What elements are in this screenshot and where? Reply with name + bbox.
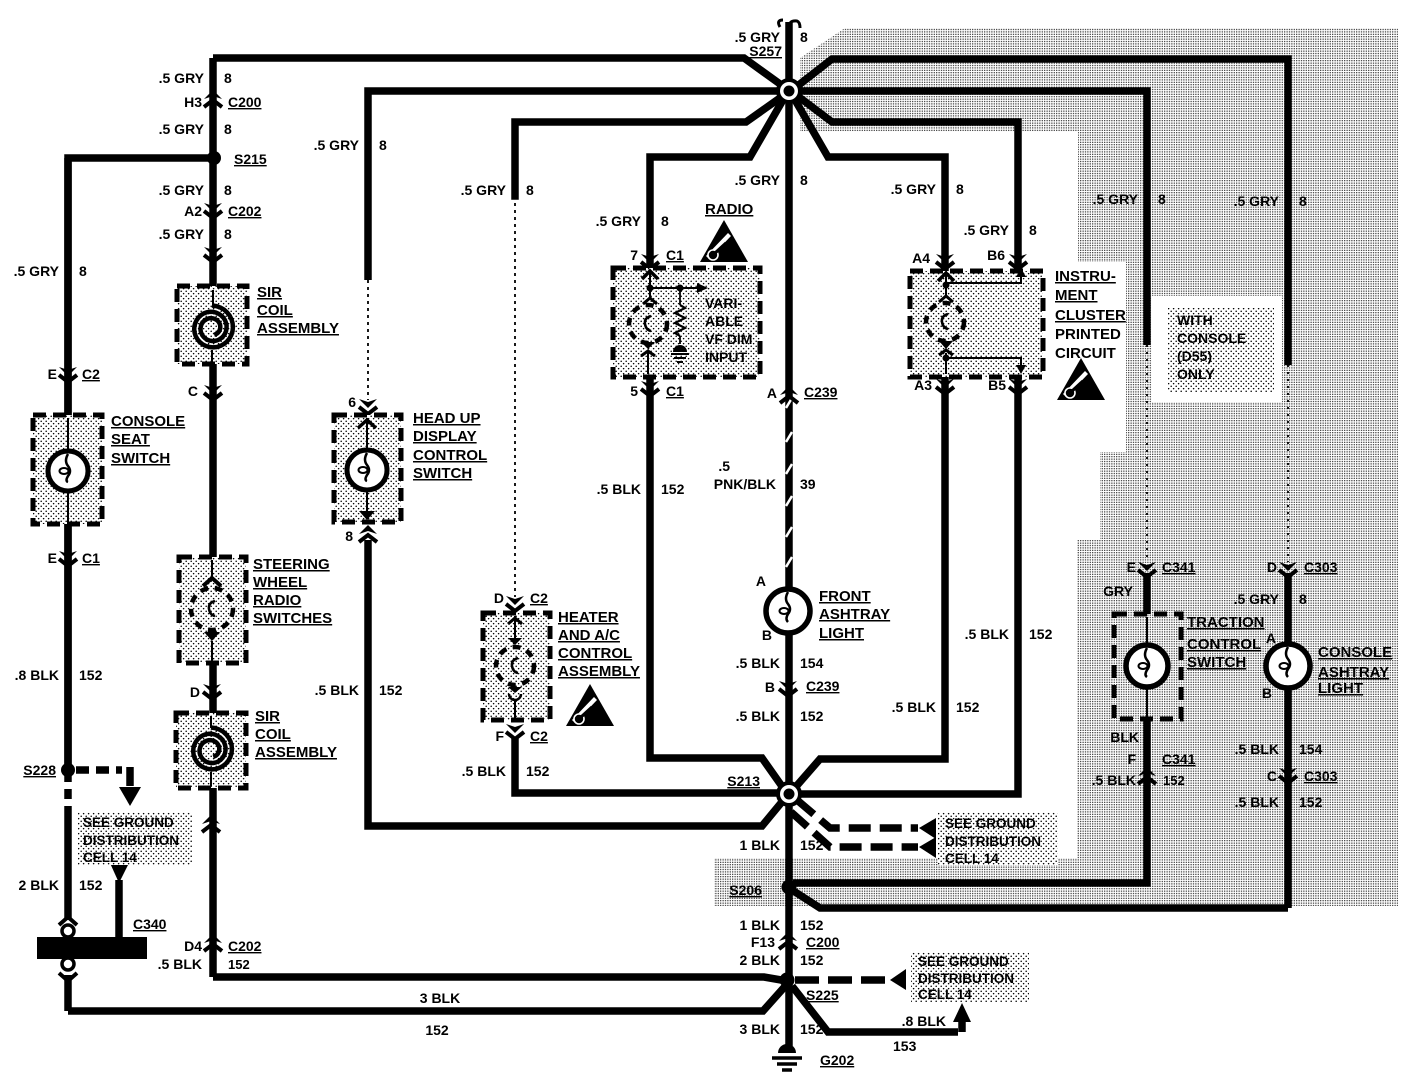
svg-text:CONTROL: CONTROL [558, 645, 632, 662]
svg-text:C239: C239 [806, 678, 840, 694]
svg-text:.5: .5 [718, 458, 730, 474]
svg-text:C2: C2 [530, 590, 548, 606]
wire S257 to C200/H3 branch (left top) [213, 58, 787, 89]
connector A4 instrument cluster [936, 254, 954, 269]
ground G202 [778, 1044, 796, 1053]
traction control switch [1114, 614, 1181, 719]
svg-text:DISTRIBUTION: DISTRIBUTION [945, 834, 1041, 849]
connector C239 pin A [780, 386, 798, 403]
connector C202 pin A2 [204, 203, 222, 218]
svg-text:E: E [48, 366, 57, 382]
wire S257 to head up display switch [368, 91, 786, 280]
svg-text:152: 152 [661, 481, 685, 497]
svg-text:E: E [1127, 559, 1136, 575]
wire S257 stub to top of page [785, 22, 793, 91]
svg-text:.5 GRY: .5 GRY [159, 182, 205, 198]
svg-text:A: A [767, 385, 777, 401]
svg-text:.5 GRY: .5 GRY [1093, 191, 1139, 207]
svg-text:SIR: SIR [257, 284, 282, 301]
svg-text:SWITCHES: SWITCHES [253, 610, 332, 627]
connector B5 instrument cluster [1009, 379, 1027, 394]
svg-text:.5 GRY: .5 GRY [159, 70, 205, 86]
svg-text:C303: C303 [1304, 559, 1338, 575]
svg-text:D4: D4 [184, 938, 202, 954]
connector C341 pin E [1138, 562, 1156, 577]
svg-text:3 BLK: 3 BLK [740, 1021, 780, 1037]
connector C303 pin C [1279, 768, 1297, 783]
svg-text:8: 8 [1299, 193, 1307, 209]
C340 ground bus bar [37, 937, 147, 959]
wire radio pin5 down to S213 [650, 377, 786, 792]
dashed wire S213 to ground distribution (lower) [791, 812, 918, 847]
svg-text:.5 BLK: .5 BLK [1235, 741, 1279, 757]
svg-text:.5 BLK: .5 BLK [597, 481, 641, 497]
svg-text:152: 152 [379, 682, 403, 698]
svg-text:B: B [765, 679, 775, 695]
note box see ground distribution (S213) [938, 812, 1058, 865]
svg-text:B6: B6 [987, 247, 1005, 263]
svg-text:8: 8 [800, 172, 808, 188]
wire S257 to radio pin 7 [650, 93, 787, 268]
svg-text:F: F [495, 728, 504, 744]
svg-text:8: 8 [800, 29, 808, 45]
svg-text:A: A [756, 573, 766, 589]
svg-text:CONTROL: CONTROL [413, 447, 487, 464]
wire cluster A3 down to S213 [793, 377, 945, 790]
radio (VF dim input) [613, 268, 760, 377]
wire S228 to C340 [64, 772, 72, 806]
svg-text:STEERING: STEERING [253, 556, 330, 573]
connector C1 pin 7 radio [641, 254, 659, 269]
svg-text:C303: C303 [1304, 768, 1338, 784]
svg-text:8: 8 [224, 226, 232, 242]
svg-text:S213: S213 [727, 773, 760, 789]
svg-text:ASSEMBLY: ASSEMBLY [558, 663, 640, 680]
svg-text:.5 GRY: .5 GRY [891, 181, 937, 197]
svg-text:ASSEMBLY: ASSEMBLY [257, 320, 339, 337]
svg-text:.8 BLK: .8 BLK [15, 667, 59, 683]
svg-text:SIR: SIR [255, 708, 280, 725]
svg-text:CONTROL: CONTROL [1187, 636, 1261, 653]
svg-text:152: 152 [800, 1021, 824, 1037]
svg-text:TRACTION: TRACTION [1187, 614, 1265, 631]
svg-text:.5 GRY: .5 GRY [159, 226, 205, 242]
shaded band at splice S206 [714, 858, 1077, 906]
svg-text:2 BLK: 2 BLK [19, 877, 59, 893]
svg-text:7: 7 [630, 247, 638, 263]
splice S225 [780, 973, 795, 988]
svg-text:LIGHT: LIGHT [819, 625, 864, 642]
svg-text:SWITCH: SWITCH [1187, 654, 1246, 671]
connector C341 pin F [1138, 767, 1156, 784]
svg-text:C2: C2 [530, 728, 548, 744]
svg-text:D: D [494, 590, 504, 606]
svg-text:H3: H3 [184, 94, 202, 110]
dashed wire S228 to ground distribution [76, 766, 122, 774]
console ashtray light [1266, 644, 1310, 688]
svg-text:152: 152 [79, 877, 103, 893]
svg-text:C200: C200 [228, 94, 262, 110]
ESD symbol heater [566, 684, 614, 726]
connector A3 instrument cluster [936, 379, 954, 394]
wire D4 C202 to S225 (3 BLK 152) [213, 977, 787, 981]
svg-text:.5 BLK: .5 BLK [158, 956, 202, 972]
svg-text:WITH: WITH [1177, 312, 1213, 328]
svg-text:COIL: COIL [257, 302, 293, 319]
svg-text:8: 8 [1029, 222, 1037, 238]
note box see ground distribution (S225) [911, 952, 1029, 1002]
wire below C340 to bottom run [64, 975, 72, 1011]
svg-text:F: F [1127, 751, 1136, 767]
svg-text:SWITCH: SWITCH [413, 465, 472, 482]
svg-text:.5 BLK: .5 BLK [462, 763, 506, 779]
wire console seat switch segments [64, 158, 72, 416]
svg-text:INSTRU-: INSTRU- [1055, 268, 1116, 285]
svg-text:154: 154 [800, 655, 824, 671]
connector circles above C340 [59, 917, 77, 925]
connector B6 instrument cluster [1009, 254, 1027, 269]
svg-text:HEAD UP: HEAD UP [413, 410, 481, 427]
svg-text:DISTRIBUTION: DISTRIBUTION [83, 833, 179, 848]
svg-text:.5 BLK: .5 BLK [1235, 794, 1279, 810]
svg-text:.5 BLK: .5 BLK [1092, 772, 1136, 788]
svg-text:INPUT: INPUT [705, 349, 747, 365]
connector pin 6 head up display [359, 399, 377, 414]
svg-text:.5 GRY: .5 GRY [461, 182, 507, 198]
svg-text:152: 152 [425, 1022, 449, 1038]
note box with console only [1152, 296, 1282, 402]
svg-text:D: D [1267, 559, 1277, 575]
svg-text:39: 39 [800, 476, 816, 492]
connector below SIR coil 2 [202, 815, 220, 832]
svg-text:MENT: MENT [1055, 287, 1098, 304]
connector C239 pin B [779, 681, 797, 696]
wire vertical H3 C200 S215 column [209, 58, 217, 287]
svg-text:FRONT: FRONT [819, 588, 871, 605]
dashed wire S213 to ground distribution (upper) [797, 800, 918, 828]
svg-text:1 BLK: 1 BLK [740, 917, 780, 933]
connector circles below C340 [62, 958, 74, 970]
svg-text:AND A/C: AND A/C [558, 627, 620, 644]
wire S213 to S206 to S225 to G202 [785, 794, 793, 1046]
svg-text:152: 152 [228, 957, 250, 972]
svg-text:.5 GRY: .5 GRY [964, 222, 1010, 238]
svg-text:A3: A3 [914, 377, 932, 393]
svg-text:ASHTRAY: ASHTRAY [819, 606, 890, 623]
connector C303 pin D [1279, 562, 1297, 577]
svg-text:C200: C200 [806, 934, 840, 950]
svg-text:.5 GRY: .5 GRY [14, 263, 60, 279]
ESD symbol radio [700, 220, 748, 262]
splice S213 [776, 781, 802, 807]
svg-text:C239: C239 [804, 384, 838, 400]
connector C2 pin F heater [506, 724, 524, 739]
svg-text:.5 BLK: .5 BLK [736, 655, 780, 671]
svg-text:GRY: GRY [1103, 583, 1133, 599]
white stripe ticks on PNK/BLK wire [786, 398, 792, 408]
svg-text:S206: S206 [729, 882, 762, 898]
svg-text:RADIO: RADIO [705, 201, 754, 218]
svg-text:ASHTRAY: ASHTRAY [1318, 664, 1389, 681]
svg-text:S257: S257 [749, 43, 782, 59]
SIR coil assembly (upper) [177, 286, 247, 364]
connector pin D steering wheel [203, 684, 221, 699]
svg-text:8: 8 [79, 263, 87, 279]
heater and A/C control assembly [483, 613, 550, 720]
svg-text:SEAT: SEAT [111, 431, 150, 448]
connector C202 pin D4 [204, 934, 222, 951]
svg-text:CIRCUIT: CIRCUIT [1055, 345, 1116, 362]
svg-text:BLK: BLK [1110, 729, 1139, 745]
svg-text:SWITCH: SWITCH [111, 450, 170, 467]
svg-text:C1: C1 [666, 383, 684, 399]
connector C200 pin H3 [204, 90, 222, 107]
resistor inside radio [679, 288, 681, 305]
svg-text:.5 BLK: .5 BLK [965, 626, 1009, 642]
svg-text:B: B [762, 627, 772, 643]
svg-text:CLUSTER: CLUSTER [1055, 307, 1126, 324]
wire traction F C341 to S206 [793, 719, 1147, 883]
dashed wire S225 to ground distribution [795, 976, 888, 984]
svg-text:.5 BLK: .5 BLK [315, 682, 359, 698]
wire S257 to console ashtray D C303 [791, 59, 1288, 365]
svg-text:E: E [48, 550, 57, 566]
svg-text:.8 BLK: .8 BLK [902, 1013, 946, 1029]
shaded option region middle strip [1126, 302, 1398, 452]
svg-text:C1: C1 [82, 550, 100, 566]
svg-text:154: 154 [1299, 741, 1323, 757]
svg-text:152: 152 [800, 952, 824, 968]
svg-text:LIGHT: LIGHT [1318, 680, 1363, 697]
svg-text:ABLE: ABLE [705, 313, 743, 329]
svg-text:CELL 14: CELL 14 [83, 850, 137, 865]
ground symbol inside radio [673, 345, 687, 352]
svg-text:PRINTED: PRINTED [1055, 326, 1121, 343]
svg-text:ASSEMBLY: ASSEMBLY [255, 744, 337, 761]
shaded option region top band [800, 28, 1398, 132]
svg-text:3 BLK: 3 BLK [420, 990, 460, 1006]
svg-text:.5 GRY: .5 GRY [735, 172, 781, 188]
note box see ground distribution (S228) [78, 812, 192, 865]
svg-text:CELL 14: CELL 14 [945, 851, 999, 866]
svg-text:.5 GRY: .5 GRY [596, 213, 642, 229]
svg-text:VF DIM: VF DIM [705, 331, 752, 347]
svg-text:C341: C341 [1162, 751, 1196, 767]
svg-text:152: 152 [1299, 794, 1323, 810]
svg-text:8: 8 [1299, 591, 1307, 607]
splice S257 [776, 78, 802, 104]
svg-text:8: 8 [956, 181, 964, 197]
svg-text:A: A [1266, 630, 1276, 646]
wire S215 branch to console seat switch column [68, 158, 217, 770]
wire S257 to traction control switch E C341 [789, 91, 1147, 345]
svg-text:SEE GROUND: SEE GROUND [945, 816, 1036, 831]
svg-text:D: D [190, 684, 200, 700]
SIR coil assembly (lower) [176, 713, 246, 788]
splice S228 [61, 763, 75, 777]
svg-text:8: 8 [1158, 191, 1166, 207]
svg-text:ONLY: ONLY [1177, 366, 1215, 382]
wire ground distribution into C340 [110, 863, 129, 883]
svg-text:C202: C202 [228, 938, 262, 954]
svg-text:COIL: COIL [255, 726, 291, 743]
splice S215 [207, 151, 221, 165]
svg-text:G202: G202 [820, 1052, 854, 1068]
head up display control switch [334, 415, 401, 522]
svg-text:152: 152 [1163, 773, 1185, 788]
svg-text:8: 8 [224, 121, 232, 137]
svg-text:8: 8 [224, 70, 232, 86]
ESD symbol instrument cluster [1057, 358, 1105, 400]
svg-text:.5 GRY: .5 GRY [159, 121, 205, 137]
svg-text:B: B [1262, 685, 1272, 701]
svg-text:152: 152 [800, 837, 824, 853]
wire console ashtray C303 to S206 [792, 890, 1288, 908]
wire head up display pin8 down to S213 [368, 540, 786, 826]
connector pin C below SIR coil [204, 385, 222, 400]
wire S257 to heater D C2 [515, 93, 787, 196]
connector C200 pin F13 [779, 932, 797, 949]
wire center column S257 down to S213 [785, 91, 793, 794]
svg-text:S225: S225 [806, 987, 839, 1003]
connector C1 pin E [59, 551, 77, 566]
svg-text:152: 152 [79, 667, 103, 683]
svg-text:S215: S215 [234, 151, 267, 167]
svg-text:DISPLAY: DISPLAY [413, 428, 477, 445]
svg-text:C202: C202 [228, 203, 262, 219]
svg-text:2 BLK: 2 BLK [740, 952, 780, 968]
instrument cluster printed circuit [910, 271, 1043, 377]
wire S257 to instrument cluster B6 [791, 91, 1018, 268]
svg-text:CONSOLE: CONSOLE [1318, 644, 1392, 661]
svg-text:WHEEL: WHEEL [253, 574, 307, 591]
svg-text:152: 152 [526, 763, 550, 779]
splice S206 [782, 880, 797, 895]
svg-text:C: C [1267, 768, 1277, 784]
connector C1 pin 5 radio [641, 381, 659, 396]
svg-text:152: 152 [1029, 626, 1053, 642]
svg-text:B5: B5 [988, 377, 1006, 393]
svg-text:(D55): (D55) [1177, 348, 1212, 364]
svg-text:152: 152 [800, 917, 824, 933]
svg-text:CONSOLE: CONSOLE [111, 413, 185, 430]
wire cluster B5 down to S213 [792, 377, 1018, 794]
svg-text:C340: C340 [133, 916, 167, 932]
svg-text:SEE GROUND: SEE GROUND [918, 954, 1009, 969]
svg-text:F13: F13 [751, 934, 775, 950]
svg-text:8: 8 [526, 182, 534, 198]
svg-text:PNK/BLK: PNK/BLK [714, 476, 776, 492]
connector pin 8 head up display [359, 525, 377, 542]
svg-text:HEATER: HEATER [558, 609, 619, 626]
svg-text:153: 153 [893, 1038, 917, 1054]
svg-text:DISTRIBUTION: DISTRIBUTION [918, 971, 1014, 986]
shaded option region bottom block [1077, 540, 1398, 906]
wire S257 to instrument cluster A4 [791, 93, 945, 268]
svg-text:.5 BLK: .5 BLK [736, 708, 780, 724]
svg-text:.5 BLK: .5 BLK [892, 699, 936, 715]
svg-text:A2: A2 [184, 203, 202, 219]
svg-text:.5 GRY: .5 GRY [1234, 193, 1280, 209]
svg-text:A4: A4 [912, 250, 930, 266]
connector C2 pin D heater [506, 596, 524, 611]
steering wheel radio switches [179, 557, 246, 663]
connector C2 pin E [59, 367, 77, 382]
wire heater F C2 down to S213 [515, 738, 786, 793]
svg-text:.5 GRY: .5 GRY [314, 137, 360, 153]
svg-text:C2: C2 [82, 366, 100, 382]
front ashtray light [766, 589, 810, 633]
svg-text:8: 8 [224, 182, 232, 198]
svg-text:152: 152 [800, 708, 824, 724]
svg-text:1 BLK: 1 BLK [740, 837, 780, 853]
bottom wire 3 BLK 152 to S225 [68, 983, 788, 1011]
svg-text:S228: S228 [23, 762, 56, 778]
svg-text:6: 6 [348, 394, 356, 410]
console seat switch [33, 415, 102, 524]
svg-text:5: 5 [630, 383, 638, 399]
svg-text:RADIO: RADIO [253, 592, 302, 609]
svg-text:C1: C1 [666, 247, 684, 263]
svg-text:C341: C341 [1162, 559, 1196, 575]
svg-text:VARI-: VARI- [705, 295, 742, 311]
svg-text:8: 8 [345, 528, 353, 544]
svg-text:.5 GRY: .5 GRY [1234, 591, 1280, 607]
svg-text:SEE GROUND: SEE GROUND [83, 815, 174, 830]
connector into SIR coil assembly [204, 247, 222, 262]
svg-text:8: 8 [661, 213, 669, 229]
svg-text:CELL 14: CELL 14 [918, 987, 972, 1002]
svg-text:C: C [188, 383, 198, 399]
svg-text:CONSOLE: CONSOLE [1177, 330, 1246, 346]
shaded option region right column [1078, 130, 1398, 262]
svg-text:8: 8 [379, 137, 387, 153]
svg-text:152: 152 [956, 699, 980, 715]
wire S225 to ground distribution cell (.8 BLK 153) [792, 986, 958, 1032]
